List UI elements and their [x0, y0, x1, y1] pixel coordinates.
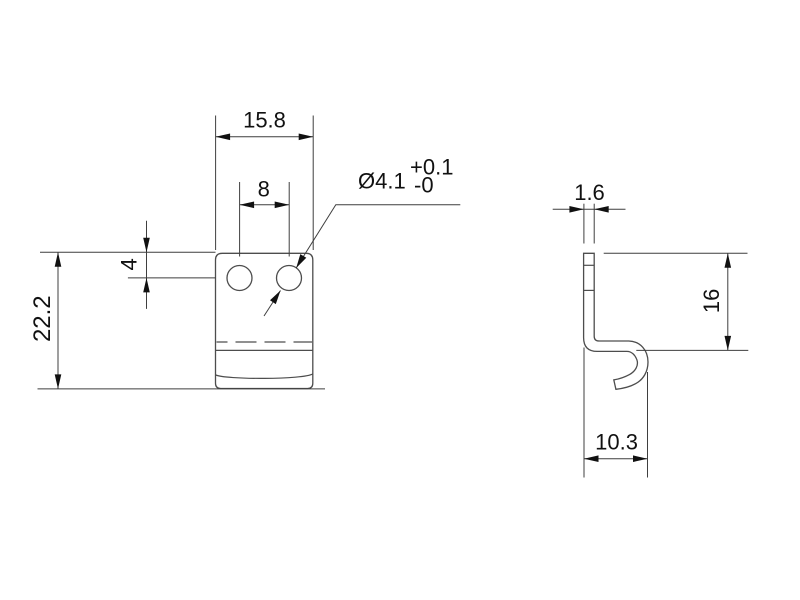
- leader dia 4.1 tolerance: [264, 155, 460, 317]
- dimension 8: [240, 177, 290, 257]
- bend tangent line: [216, 349, 313, 351]
- front view plate outline: [216, 253, 313, 388]
- dimension 22.2: [29, 252, 325, 389]
- svg-text:Ø4.1: Ø4.1: [358, 169, 406, 194]
- svg-text:-0: -0: [414, 173, 434, 198]
- hole tangent tick upper: [584, 264, 595, 266]
- curl front curve: [216, 374, 313, 378]
- dimension 10.3: [584, 348, 648, 478]
- svg-text:22.2: 22.2: [29, 295, 56, 342]
- svg-text:1.6: 1.6: [574, 180, 605, 205]
- svg-text:15.8: 15.8: [243, 108, 286, 133]
- dimension 16: [604, 253, 749, 350]
- side view profile outline: [584, 253, 648, 389]
- dimension 15.8: [216, 108, 314, 251]
- hole tangent tick lower: [584, 289, 595, 291]
- svg-text:8: 8: [258, 177, 270, 202]
- dimension 1.6: [553, 180, 626, 244]
- dimension 4: [40, 221, 216, 309]
- svg-text:4: 4: [117, 258, 142, 270]
- hidden bend line (dashed): [217, 341, 313, 343]
- hole H1 (left): [227, 266, 252, 291]
- hole H2 (right): [277, 266, 302, 291]
- svg-text:10.3: 10.3: [595, 430, 638, 455]
- svg-text:16: 16: [699, 289, 724, 313]
